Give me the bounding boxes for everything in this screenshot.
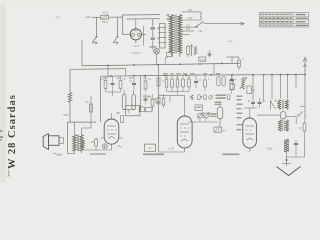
tube KL4 leads <box>101 113 124 150</box>
wire ot leads <box>68 122 92 153</box>
svg-text:220: 220 <box>188 8 193 12</box>
rail screen <box>70 68 126 71</box>
resistor on col158 <box>153 98 161 104</box>
wire speaker top <box>68 122 97 153</box>
svg-text:MFG: MFG <box>102 20 108 24</box>
transformer secondary <box>178 15 182 54</box>
capacitor Cx209 <box>208 50 212 58</box>
resistor Rk <box>91 138 98 150</box>
tube KL4 <box>104 119 119 144</box>
tube C1F leads <box>249 112 251 152</box>
label A45 <box>150 46 157 47</box>
component Cd2 <box>204 75 210 91</box>
switch S1a <box>92 36 98 45</box>
output transformer <box>64 135 84 152</box>
title W 28 Csardas <box>7 94 18 169</box>
box 300 <box>195 105 203 110</box>
label a-b <box>228 39 232 43</box>
wire speaker feed <box>69 69 71 92</box>
tap 110 <box>182 27 203 33</box>
label spulensatz <box>143 153 164 155</box>
transformer core <box>175 15 176 54</box>
box NSW <box>199 57 206 61</box>
wire arrows primary <box>166 14 169 20</box>
row comp zig <box>191 95 194 100</box>
IFT2 winding a <box>279 120 282 131</box>
labels col left of C1F <box>237 96 243 131</box>
label fuse MFG <box>102 20 108 24</box>
resistor Rm2 <box>119 76 126 92</box>
wire mains <box>92 16 123 18</box>
cathode circle <box>102 144 111 149</box>
wire col x158.5 <box>158 65 160 152</box>
labels 30 30 300 <box>216 94 227 98</box>
edge mark <box>0 131 3 140</box>
wire col2b <box>90 96 92 128</box>
wire grid cf7 <box>159 95 185 110</box>
resistor Rg <box>85 101 92 112</box>
label V107 <box>131 51 141 55</box>
loudspeaker <box>43 134 63 150</box>
coil oval mid <box>280 112 286 120</box>
svg-text:12 V: 12 V <box>134 44 140 48</box>
wire h under <box>101 121 105 123</box>
labels row mid2 <box>103 78 147 79</box>
svg-text:CµF: CµF <box>267 147 273 151</box>
wire hsub <box>106 92 121 96</box>
trimmer T2 <box>203 112 209 118</box>
svg-text:150: 150 <box>188 16 193 20</box>
fuse Si <box>101 15 109 19</box>
wire c1f col <box>244 108 257 112</box>
label mains ~220 <box>84 15 91 19</box>
svg-text:V 107 V: V 107 V <box>131 51 141 55</box>
wire rect leads <box>123 19 144 46</box>
IFT1 core <box>282 100 283 110</box>
wire long l2 <box>219 122 221 127</box>
wire if link <box>257 112 296 124</box>
label C1F <box>267 147 273 151</box>
choke loop a <box>122 94 126 109</box>
resistor Rm3 <box>144 76 152 92</box>
wire gnd bus <box>286 152 305 161</box>
coil small oval <box>217 103 223 125</box>
wire col1 <box>100 76 102 122</box>
resistor Rd3 <box>230 75 237 94</box>
box under choke <box>126 106 140 116</box>
svg-text:W 28 Csardas: W 28 Csardas <box>7 94 18 169</box>
resistor R250 <box>116 112 123 123</box>
row comp loop2 <box>204 95 207 100</box>
svg-text:400: 400 <box>56 153 61 157</box>
label c1 <box>143 96 160 103</box>
svg-text:47µ: 47µ <box>117 144 122 148</box>
capacitor Ctr <box>230 75 235 90</box>
label 50W <box>63 113 69 117</box>
comp 03 <box>247 86 256 94</box>
svg-text:L-W: L-W <box>168 147 173 151</box>
wire choke <box>124 90 134 113</box>
label 12V <box>134 44 140 48</box>
IFT1 winding b <box>285 100 288 110</box>
label KL4 <box>117 144 122 148</box>
svg-text:Nora: Nora <box>7 170 11 177</box>
capacitor Cd1 <box>194 75 202 88</box>
labels row mid <box>163 73 220 74</box>
wire long l3 <box>239 92 241 110</box>
wire tr bottom <box>167 53 180 58</box>
tap bottom <box>182 34 190 36</box>
wire drop x82 <box>81 40 83 66</box>
loop small a <box>217 77 220 87</box>
rail anode <box>82 63 240 67</box>
IFT2 winding b <box>286 120 289 131</box>
tube CF7 leads <box>184 110 186 152</box>
transformer primary <box>169 15 173 54</box>
wire kl4 bottom <box>82 140 112 150</box>
svg-text:4µ: 4µ <box>157 37 160 41</box>
wire heater run <box>204 22 245 25</box>
wire mains left drop <box>96 17 98 36</box>
capacitor Ck1 <box>144 94 153 104</box>
labels 300-360 <box>215 102 222 106</box>
capacitor C1 4uF <box>151 26 161 30</box>
capacitor Cg <box>294 140 298 157</box>
svg-text:≈30: ≈30 <box>198 29 203 33</box>
trimmer T1 <box>197 112 203 118</box>
wire drop x125 <box>125 69 127 76</box>
box x139-152 <box>139 107 152 112</box>
hatch box <box>214 127 227 133</box>
svg-text:125: 125 <box>186 23 191 27</box>
rail avc <box>101 74 306 77</box>
label fuse A 0,2 <box>102 11 108 15</box>
capacitor C2 4uF <box>151 37 161 41</box>
row comp loop3 <box>227 95 230 100</box>
rectifier V1 <box>130 29 141 40</box>
lamp dial <box>153 48 168 64</box>
svg-text:A 0,2: A 0,2 <box>102 11 108 15</box>
resistor R field <box>68 92 72 122</box>
ground symbol <box>277 160 301 176</box>
wire col2 <box>107 66 109 78</box>
wire topright <box>226 57 239 63</box>
resistor group driver <box>165 75 191 91</box>
resistor Rn <box>298 119 305 138</box>
wire col x140.7 <box>140 76 142 112</box>
wire mains right drop <box>117 17 119 36</box>
wire trimmers <box>188 118 218 122</box>
svg-text:4µ: 4µ <box>157 26 160 30</box>
tap 125 <box>182 23 198 28</box>
label 400 <box>53 153 62 157</box>
wire driver col <box>169 96 171 102</box>
variable cap VC <box>269 100 277 110</box>
capacitor Cr2 <box>258 98 266 108</box>
wire to caps <box>141 19 152 50</box>
wire right col <box>300 74 306 119</box>
switch voltage sel <box>195 21 203 27</box>
resistor rg2 <box>304 138 306 157</box>
svg-text:a-b: a-b <box>228 39 232 43</box>
paper background <box>0 0 320 183</box>
svg-text:~220: ~220 <box>84 15 91 19</box>
coil LW <box>284 139 288 152</box>
row comp loop1 <box>198 95 203 100</box>
loop small b <box>222 77 225 87</box>
IFT2 core <box>283 120 284 131</box>
capacitor Cm1 <box>111 76 115 92</box>
svg-text:50W: 50W <box>63 113 69 117</box>
IFT1 winding a <box>278 100 281 110</box>
label spule left <box>90 153 106 155</box>
label spule2 <box>223 153 240 155</box>
tap 220 <box>182 8 201 20</box>
pot Ptr <box>240 77 247 89</box>
wire colr <box>253 75 296 100</box>
switch S1b <box>113 36 119 45</box>
resistor Rr1 <box>238 57 245 70</box>
resistor R x158 <box>157 78 164 86</box>
tube table <box>260 13 309 27</box>
selector block <box>158 24 167 49</box>
wire long l1 <box>213 63 215 75</box>
tap 150 <box>182 16 201 20</box>
resistor Ra1 <box>151 94 154 110</box>
labels trim right <box>210 113 217 117</box>
label CF7 <box>168 147 173 151</box>
antenna <box>303 57 307 74</box>
row comp trim <box>209 95 213 99</box>
speck <box>56 16 60 19</box>
capacitor Cr1 <box>248 98 255 108</box>
tube C1F <box>243 118 257 148</box>
resistor Rm1 <box>100 76 106 92</box>
component x163 <box>162 94 165 108</box>
wire under cf7 <box>159 152 185 156</box>
resistor R2 <box>187 45 190 58</box>
svg-text:110: 110 <box>186 27 190 31</box>
wire frame top <box>123 15 160 26</box>
capacitor Cm2 <box>129 76 136 90</box>
boxed label 1 <box>145 144 156 151</box>
switch k <box>297 112 306 119</box>
choke loop b <box>132 94 136 109</box>
title Nora <box>7 170 11 177</box>
potentiometer P1 <box>190 45 197 57</box>
wire hsub2 <box>167 92 190 96</box>
tube CF7 <box>177 116 192 148</box>
